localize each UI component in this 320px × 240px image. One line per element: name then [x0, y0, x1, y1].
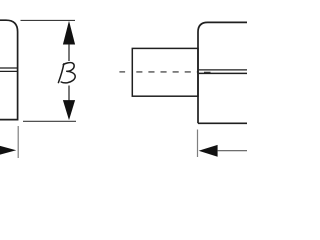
dimension B line upper segment	[68, 44, 70, 61]
bottom-right extension line vertical	[197, 130, 199, 158]
left body seam line upper	[0, 67, 18, 69]
left body seam line lower	[0, 70, 18, 72]
dimension B line lower segment	[68, 86, 70, 101]
center line dash inside body	[204, 71, 211, 73]
left body outline	[0, 20, 18, 119]
shaft rectangle	[132, 48, 198, 96]
bottom-right dimension line	[218, 150, 247, 152]
dimension B arrow up	[63, 21, 75, 45]
center line dashes	[136, 71, 198, 73]
bottom-left extension line vertical	[17, 126, 19, 158]
right body seam line upper	[199, 69, 247, 71]
dimension B arrow down	[63, 100, 75, 120]
label B	[58, 63, 75, 83]
dimension B top extension line	[21, 19, 76, 21]
right body outline	[198, 22, 251, 123]
center line dash leading	[119, 71, 125, 73]
right body seam line lower	[199, 72, 247, 74]
bottom-right dimension arrow (pointing left)	[199, 145, 218, 157]
dimension B bottom extension line	[23, 120, 76, 122]
bottom-left dimension arrow (clipped at left edge)	[0, 144, 16, 157]
